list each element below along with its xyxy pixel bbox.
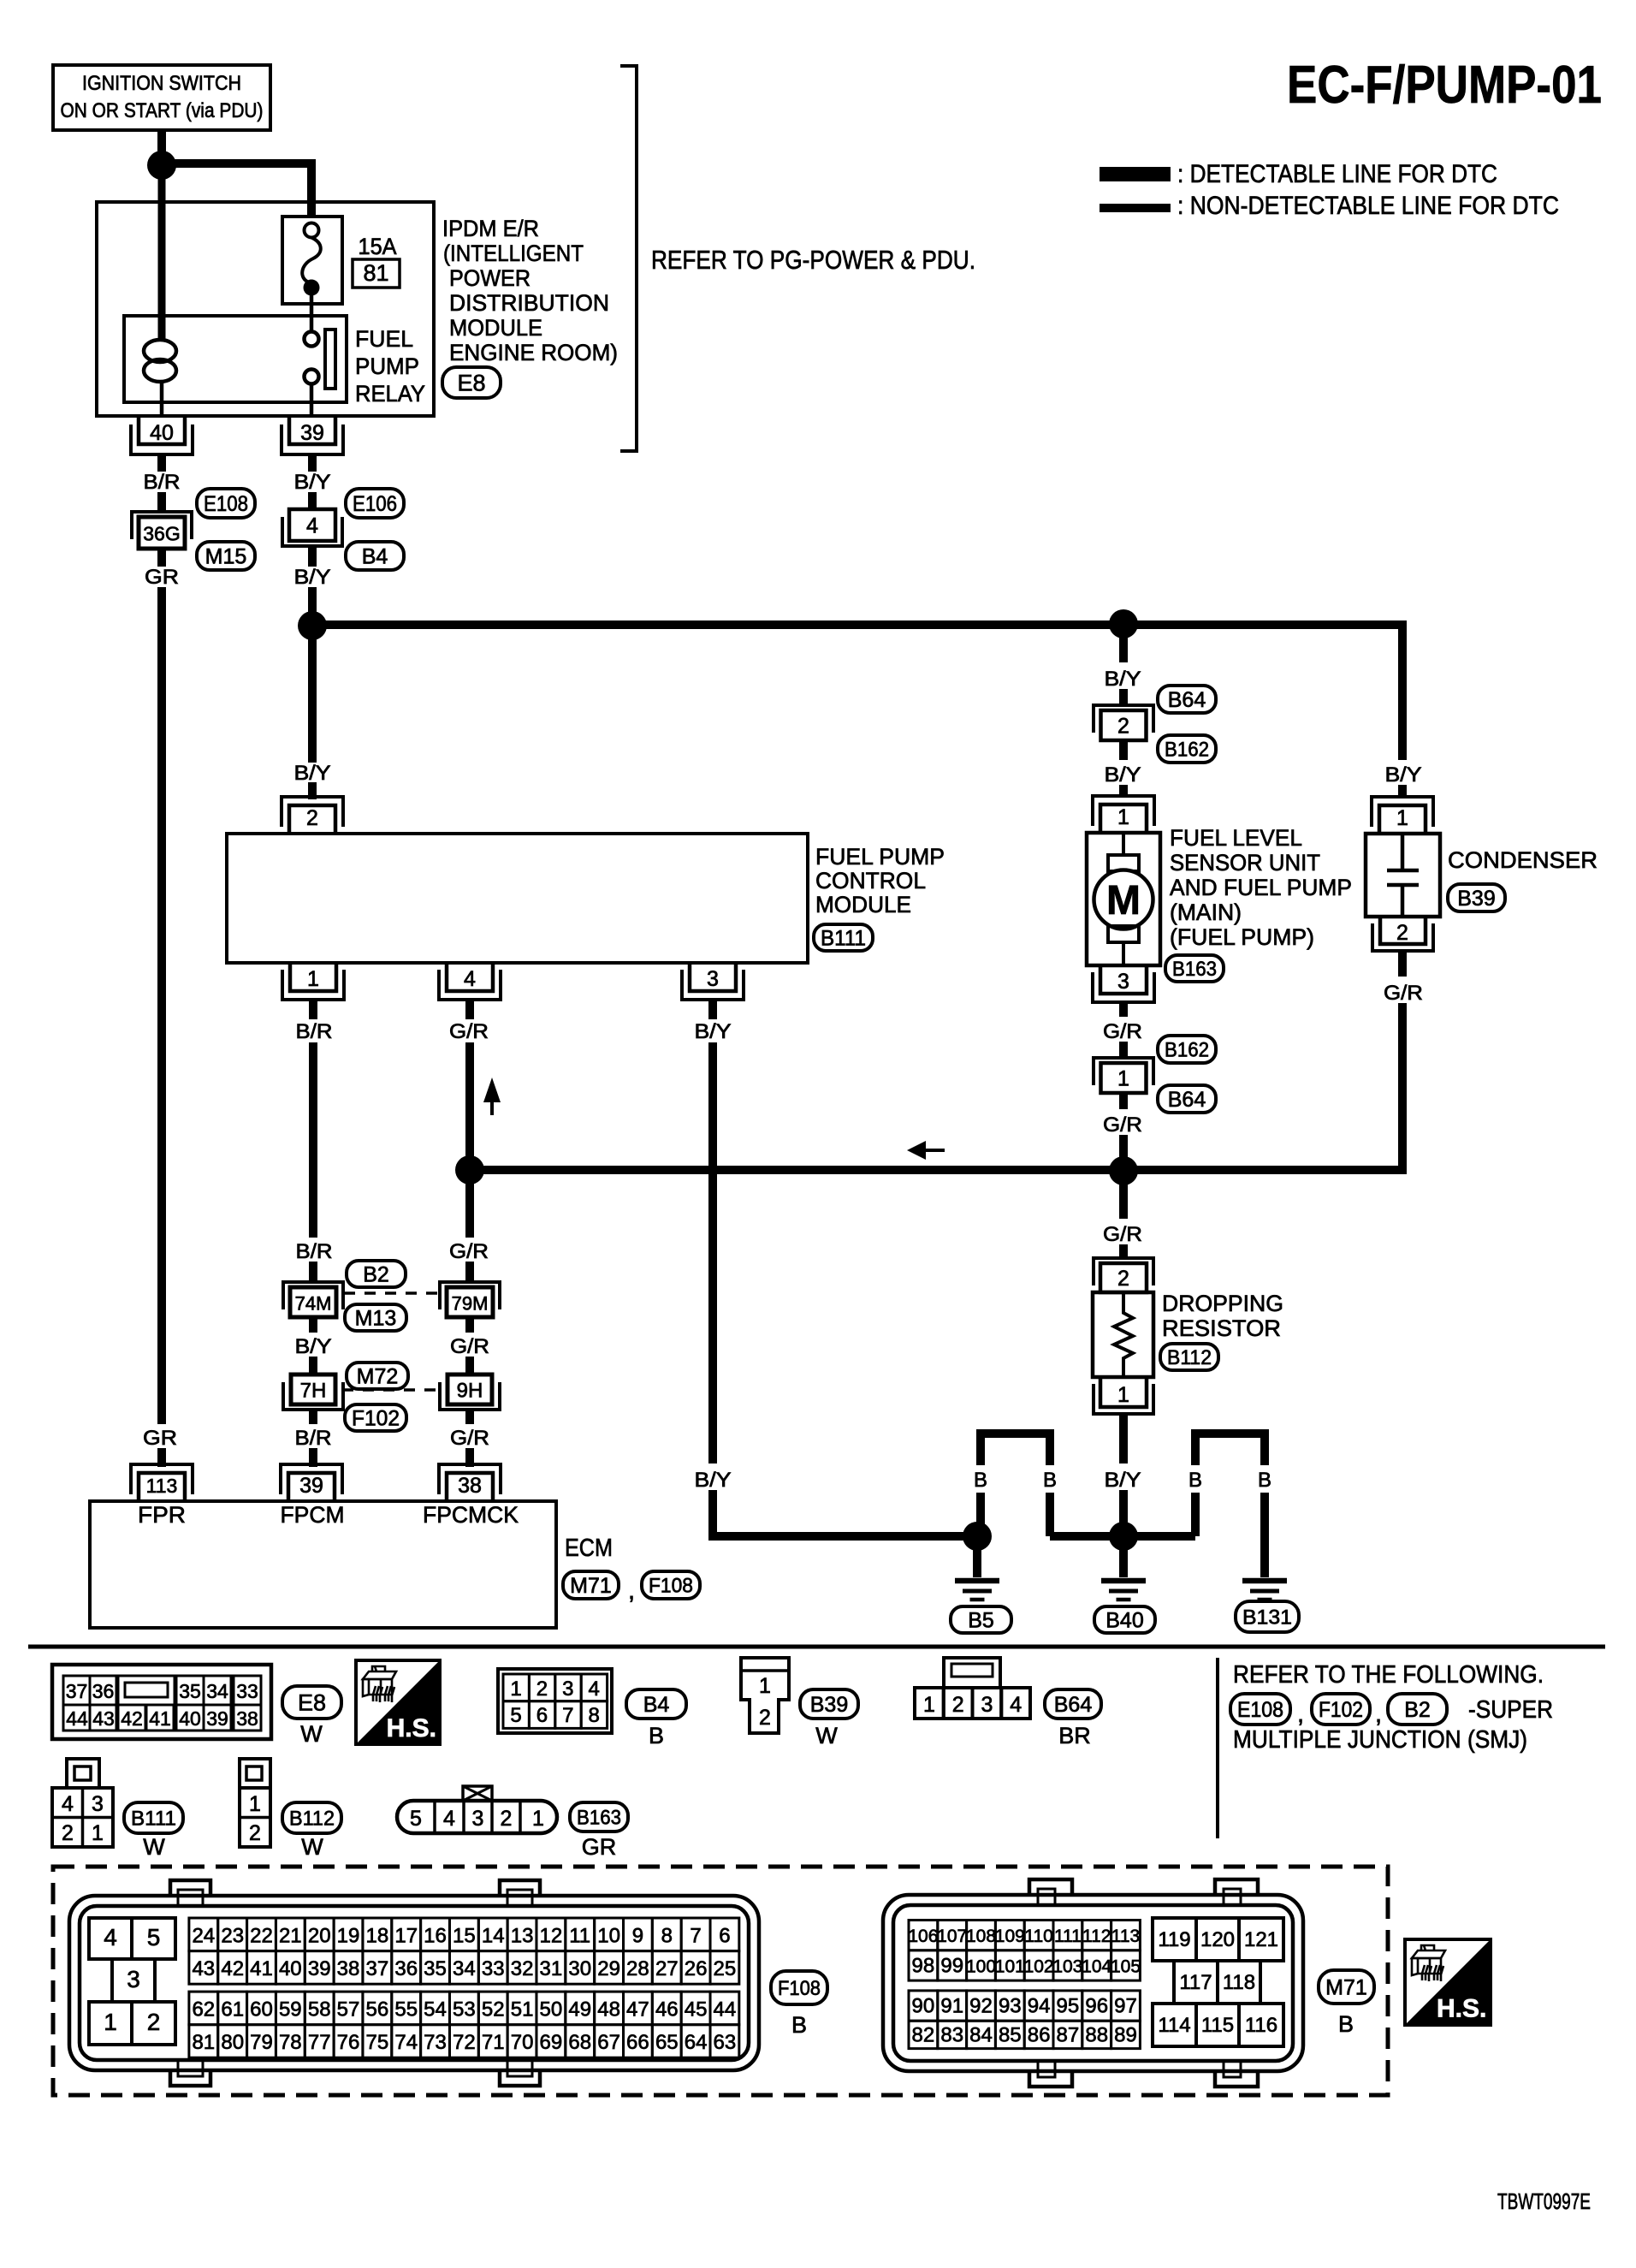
- svg-text:103: 103: [1052, 1956, 1082, 1976]
- svg-text:M: M: [1106, 878, 1141, 923]
- dashed enclosure: [53, 1867, 1388, 2095]
- svg-text:ENGINE ROOM): ENGINE ROOM): [449, 340, 618, 365]
- wire below FPCM pin 4: [465, 1000, 474, 1019]
- svg-text:31: 31: [540, 1957, 563, 1980]
- fuel pump pin 3: [1093, 965, 1154, 1002]
- svg-text:117: 117: [1179, 1971, 1212, 1994]
- svg-text:111: 111: [1054, 1927, 1082, 1946]
- connector ref E108 oval: [197, 489, 255, 518]
- svg-text:113: 113: [146, 1475, 178, 1497]
- wire junction down to relay coil: [158, 178, 166, 341]
- fuse 15A symbol: [302, 223, 321, 296]
- svg-text:14: 14: [482, 1924, 505, 1947]
- svg-text:52: 52: [482, 1998, 505, 2021]
- svg-text:DROPPING: DROPPING: [1162, 1291, 1283, 1316]
- fuel pump motor M: [1094, 834, 1153, 965]
- connector face B163: [397, 1786, 557, 1833]
- wire below 7H: [309, 1411, 317, 1424]
- svg-text:1: 1: [307, 967, 319, 991]
- wire below G/R bus junction: [1119, 1184, 1128, 1219]
- svg-text:35: 35: [179, 1680, 201, 1702]
- svg-text:65: 65: [655, 2031, 679, 2054]
- connector ref E8 oval 2: [282, 1686, 341, 1719]
- svg-text:G/R: G/R: [1103, 1223, 1142, 1246]
- wire GR into ECM: [157, 1448, 166, 1467]
- svg-text:M13: M13: [355, 1307, 397, 1331]
- svg-text:67: 67: [597, 2031, 620, 2054]
- junction node ground B5: [963, 1522, 992, 1551]
- wire into ground junction B40: [1119, 1490, 1128, 1523]
- connector ref B131 oval: [1236, 1601, 1299, 1632]
- svg-text:81: 81: [363, 260, 388, 286]
- svg-text:84: 84: [969, 2023, 993, 2046]
- svg-text:MULTIPLE JUNCTION (SMJ): MULTIPLE JUNCTION (SMJ): [1233, 1726, 1527, 1754]
- svg-text:105: 105: [1111, 1956, 1141, 1976]
- svg-text:2: 2: [952, 1693, 964, 1717]
- svg-text:M15: M15: [205, 545, 247, 569]
- svg-text:38: 38: [236, 1707, 258, 1730]
- svg-text:(INTELLIGENT: (INTELLIGENT: [443, 240, 584, 266]
- svg-text:36G: 36G: [143, 523, 180, 545]
- svg-text:98: 98: [912, 1954, 935, 1977]
- svg-text:(FUEL PUMP): (FUEL PUMP): [1170, 924, 1314, 950]
- wire B/Y down to FPCM: [308, 638, 317, 763]
- svg-text:11: 11: [569, 1924, 590, 1947]
- svg-text:6: 6: [536, 1704, 548, 1727]
- svg-text:B/Y: B/Y: [1385, 763, 1422, 787]
- wire B/Y horizontal bus: [321, 620, 1402, 629]
- wire fuse to relay contact: [310, 295, 314, 333]
- svg-text:56: 56: [366, 1998, 389, 2021]
- legend label detectable: [1177, 160, 1497, 188]
- label B/Y 4: [695, 1020, 732, 1043]
- svg-text:W: W: [815, 1723, 838, 1748]
- label G/R condenser: [1384, 982, 1423, 1005]
- connector 79M: [440, 1282, 500, 1317]
- connector ref B111 oval 2: [124, 1802, 183, 1833]
- capacitor symbol: [1387, 835, 1419, 917]
- junction node ground B40: [1109, 1522, 1138, 1551]
- connector ref B2 oval 2: [1388, 1694, 1447, 1725]
- wire below connector 2: [1119, 740, 1128, 760]
- harness side emblem H.S. 2: [1405, 1939, 1491, 2025]
- svg-text:5: 5: [410, 1807, 422, 1831]
- svg-text:2: 2: [759, 1706, 771, 1730]
- connector ref M72 oval: [347, 1363, 408, 1389]
- svg-text:H.S.: H.S.: [387, 1714, 436, 1743]
- svg-text:114: 114: [1158, 2014, 1190, 2037]
- svg-text:B40: B40: [1105, 1609, 1143, 1633]
- connector 36G: [132, 512, 192, 549]
- svg-text:B: B: [1043, 1469, 1057, 1492]
- harness side emblem H.S. 1: [356, 1660, 440, 1744]
- label IPDM E/R description: [442, 216, 618, 365]
- svg-text:CONTROL: CONTROL: [815, 868, 926, 894]
- svg-text:B2: B2: [1404, 1698, 1431, 1722]
- label FPR: [138, 1502, 186, 1528]
- comma 1: [1297, 1701, 1304, 1728]
- svg-text:FUEL PUMP: FUEL PUMP: [815, 844, 945, 870]
- svg-text:68: 68: [568, 2031, 591, 2054]
- ground bridge 1: [976, 1434, 1054, 1536]
- svg-text:34: 34: [206, 1680, 228, 1702]
- svg-text:B/Y: B/Y: [1105, 763, 1141, 787]
- junction node G/R: [455, 1155, 484, 1184]
- svg-text:GR: GR: [143, 1427, 177, 1450]
- label GR: [145, 566, 179, 589]
- svg-text:71: 71: [482, 2031, 505, 2054]
- svg-text:89: 89: [1114, 2023, 1137, 2046]
- svg-text:F108: F108: [649, 1575, 693, 1598]
- svg-text:1: 1: [1396, 806, 1408, 830]
- svg-text:AND FUEL PUMP: AND FUEL PUMP: [1170, 875, 1352, 900]
- svg-text:79M: 79M: [452, 1293, 489, 1315]
- relay contact: [305, 330, 336, 389]
- junction node pump supply: [1109, 609, 1138, 638]
- svg-text:MODULE: MODULE: [815, 892, 911, 917]
- connector ref B4 oval 2: [626, 1689, 686, 1719]
- label B F108: [791, 2012, 807, 2038]
- svg-text:4: 4: [443, 1807, 455, 1831]
- svg-text:8: 8: [589, 1704, 600, 1727]
- wire below condenser: [1398, 951, 1407, 977]
- wire condenser drop: [1398, 620, 1407, 760]
- arrow up signal direction: [483, 1078, 501, 1115]
- svg-text:-SUPER: -SUPER: [1468, 1696, 1553, 1724]
- svg-text:93: 93: [999, 1995, 1022, 2018]
- svg-text:108: 108: [966, 1927, 996, 1946]
- fuel level sensor unit and fuel pump box: [1087, 833, 1160, 965]
- svg-text:45: 45: [685, 1998, 708, 2021]
- fuel pump pin 1: [1093, 796, 1154, 833]
- svg-text:40: 40: [150, 421, 174, 445]
- svg-text:39: 39: [206, 1707, 228, 1730]
- connector ref F108 oval 3: [771, 1971, 827, 2004]
- svg-text:12: 12: [540, 1924, 563, 1947]
- label B B4: [649, 1723, 664, 1748]
- wire relay contact to pin 39: [310, 383, 314, 418]
- connector ref B162 oval 2: [1158, 1036, 1216, 1063]
- label FPCM: [281, 1502, 345, 1528]
- svg-text:26: 26: [685, 1957, 708, 1980]
- label W B112: [301, 1834, 323, 1860]
- svg-text:3: 3: [1117, 970, 1129, 994]
- connector ref F102 oval 2: [1312, 1694, 1370, 1725]
- svg-text:W: W: [301, 1834, 323, 1860]
- svg-text:E108: E108: [1237, 1698, 1283, 1722]
- label B/R 2: [296, 1020, 333, 1043]
- svg-text:IGNITION SWITCH: IGNITION SWITCH: [82, 72, 241, 95]
- legend label non-detectable: [1177, 192, 1559, 220]
- svg-text:E8: E8: [298, 1690, 326, 1716]
- separator line: [28, 1645, 1605, 1649]
- svg-text:4: 4: [464, 967, 476, 991]
- connector face B64: [915, 1658, 1030, 1719]
- label B/Y 2: [294, 566, 331, 589]
- svg-text:M71: M71: [570, 1574, 612, 1598]
- connector ref B112 oval 2: [282, 1802, 341, 1833]
- svg-text:85: 85: [999, 2023, 1022, 2046]
- svg-text:2: 2: [249, 1821, 261, 1845]
- dropping resistor pin 2: [1094, 1258, 1153, 1292]
- wire B/Y below terminal 39: [308, 454, 317, 472]
- svg-text:37: 37: [66, 1680, 88, 1702]
- svg-text:41: 41: [149, 1707, 171, 1730]
- svg-text:53: 53: [453, 1998, 476, 2021]
- svg-text:6: 6: [719, 1924, 730, 1947]
- wire B/R below terminal 40: [157, 454, 166, 472]
- svg-text:B: B: [1338, 2011, 1354, 2037]
- svg-text:,: ,: [628, 1577, 635, 1605]
- svg-text:2: 2: [1117, 1267, 1129, 1291]
- svg-text:B: B: [974, 1469, 987, 1492]
- svg-text:113: 113: [1111, 1927, 1140, 1946]
- dashed link 74M to 79M: [344, 1291, 440, 1295]
- svg-text:(MAIN): (MAIN): [1170, 899, 1242, 925]
- svg-text:F108: F108: [778, 1977, 821, 2000]
- label B/Y pump 2: [1105, 763, 1141, 787]
- connector 9H: [440, 1374, 500, 1410]
- arrow left signal direction: [907, 1141, 945, 1160]
- svg-text:112: 112: [1082, 1927, 1111, 1946]
- svg-text:18: 18: [366, 1924, 389, 1947]
- svg-text:B: B: [791, 2012, 807, 2038]
- label G/R resistor: [1103, 1223, 1142, 1246]
- junction node B/Y: [298, 611, 327, 640]
- svg-text:B163: B163: [577, 1807, 621, 1830]
- wire below connector 1: [1119, 1093, 1128, 1109]
- svg-text:121: 121: [1244, 1928, 1278, 1951]
- svg-text:GR: GR: [582, 1834, 617, 1860]
- dropping resistor pin 1: [1094, 1377, 1153, 1414]
- svg-text:G/R: G/R: [449, 1240, 489, 1263]
- svg-text:3: 3: [707, 967, 719, 991]
- relay coil: [144, 340, 176, 416]
- svg-text:BR: BR: [1058, 1723, 1091, 1748]
- svg-text:G/R: G/R: [1103, 1020, 1142, 1043]
- connector face B4 grid: [498, 1669, 612, 1733]
- junction node G/R bus: [1109, 1156, 1138, 1185]
- svg-text:15: 15: [453, 1924, 476, 1947]
- legend thin non-detectable line sample: [1100, 204, 1171, 212]
- svg-text:FPCM: FPCM: [281, 1502, 345, 1528]
- svg-text:E108: E108: [204, 492, 248, 516]
- label G/R pump: [1103, 1020, 1142, 1043]
- svg-text:39: 39: [308, 1957, 331, 1980]
- svg-text:9H: 9H: [457, 1380, 483, 1403]
- label FPCMCK: [423, 1502, 519, 1528]
- wire into ECM pin 39: [309, 1448, 317, 1467]
- wire into connector 2: [1119, 689, 1128, 705]
- FPCM pin 3: [682, 963, 744, 1000]
- svg-text:4: 4: [104, 1924, 117, 1950]
- svg-text:58: 58: [308, 1998, 331, 2021]
- svg-text:4: 4: [62, 1792, 74, 1816]
- svg-text:33: 33: [236, 1680, 258, 1702]
- wire below pump junction: [1119, 637, 1128, 662]
- svg-text:55: 55: [394, 1998, 418, 2021]
- wire below 74M: [309, 1317, 317, 1333]
- svg-text:95: 95: [1057, 1995, 1080, 2018]
- svg-text:36: 36: [394, 1957, 418, 1980]
- svg-text:70: 70: [511, 2031, 534, 2054]
- svg-text:4: 4: [306, 514, 318, 538]
- svg-text:96: 96: [1085, 1995, 1108, 2018]
- dashed link 7H to 9H: [342, 1388, 440, 1392]
- svg-text:B4: B4: [362, 545, 388, 569]
- svg-text:3: 3: [92, 1792, 104, 1816]
- fuse number 81 box: [353, 259, 400, 288]
- svg-text:118: 118: [1223, 1971, 1255, 1994]
- note REFER TO THE FOLLOWING.: [1233, 1661, 1544, 1689]
- svg-text:102: 102: [1024, 1956, 1054, 1976]
- svg-text:B64: B64: [1054, 1693, 1093, 1717]
- connector ref B40 oval: [1094, 1606, 1155, 1633]
- wire B/Y long down: [708, 1042, 717, 1464]
- svg-text:75: 75: [366, 2031, 389, 2054]
- svg-text:B64: B64: [1168, 688, 1206, 712]
- svg-text:2: 2: [147, 2009, 161, 2035]
- svg-text:B/Y: B/Y: [695, 1020, 732, 1043]
- svg-text:3: 3: [981, 1693, 993, 1717]
- label FUEL LEVEL SENSOR UNIT: [1170, 825, 1352, 950]
- svg-text:1: 1: [249, 1792, 261, 1816]
- wire into 79M: [465, 1262, 474, 1282]
- svg-text:36: 36: [92, 1680, 115, 1702]
- label B/R 3: [296, 1240, 333, 1263]
- connector M71 pin grid: [908, 1921, 1141, 2049]
- wire GR long run to ECM: [157, 587, 166, 1424]
- svg-text:90: 90: [912, 1995, 935, 2018]
- svg-text:13: 13: [511, 1924, 534, 1947]
- ignition switch box: [53, 65, 270, 130]
- svg-text:106: 106: [908, 1927, 938, 1946]
- svg-text:DISTRIBUTION: DISTRIBUTION: [449, 290, 609, 316]
- wire below FPCM pin 3: [708, 1000, 717, 1019]
- IPDM E/R module box: [97, 202, 434, 416]
- svg-text:B131: B131: [1242, 1606, 1292, 1630]
- svg-text:W: W: [300, 1721, 323, 1747]
- svg-text:74: 74: [394, 2031, 418, 2054]
- svg-text:15A: 15A: [359, 234, 397, 259]
- svg-text:B: B: [649, 1723, 664, 1748]
- connector face B111: [52, 1759, 113, 1847]
- connector ref B64 oval 3: [1045, 1689, 1101, 1719]
- label W E8: [300, 1721, 323, 1747]
- svg-text:B162: B162: [1165, 1039, 1209, 1062]
- svg-text:88: 88: [1085, 2023, 1108, 2046]
- svg-text:46: 46: [655, 1998, 679, 2021]
- svg-text:FPCMCK: FPCMCK: [423, 1502, 519, 1528]
- svg-text:H.S.: H.S.: [1437, 1995, 1486, 2023]
- svg-text:REFER TO PG-POWER & PDU.: REFER TO PG-POWER & PDU.: [651, 245, 975, 275]
- svg-text:91: 91: [940, 1995, 963, 2018]
- label B/Y pump: [1105, 668, 1141, 691]
- label W B111: [143, 1834, 165, 1860]
- connector ref B163 oval: [1165, 955, 1224, 982]
- svg-text:2: 2: [306, 806, 318, 830]
- svg-text:1: 1: [532, 1807, 544, 1831]
- comma separator: [628, 1577, 635, 1605]
- label B 4: [1258, 1469, 1271, 1492]
- wire into pump pin 1: [1119, 785, 1128, 798]
- svg-text:2: 2: [1117, 715, 1129, 739]
- wire into dropping resistor pin 2: [1119, 1244, 1128, 1258]
- svg-text:: NON-DETECTABLE LINE FOR DTC: : NON-DETECTABLE LINE FOR DTC: [1177, 192, 1559, 220]
- svg-text:20: 20: [308, 1924, 331, 1947]
- svg-text:86: 86: [1028, 2023, 1051, 2046]
- svg-text:B112: B112: [1167, 1346, 1212, 1369]
- svg-text:G/R: G/R: [450, 1335, 489, 1358]
- label FUEL PUMP RELAY: [355, 326, 425, 407]
- wire junction branch to fuse: [167, 159, 311, 217]
- wire into condenser pin 1: [1398, 785, 1407, 798]
- FPCM pin 4: [439, 963, 501, 1000]
- svg-text:RELAY: RELAY: [355, 381, 425, 407]
- svg-text:24: 24: [192, 1924, 215, 1947]
- connector 2 pump: [1094, 705, 1153, 740]
- FPCM pin 1: [282, 963, 344, 1000]
- svg-text:10: 10: [597, 1924, 620, 1947]
- svg-text:104: 104: [1082, 1956, 1111, 1976]
- label B/R: [144, 471, 181, 494]
- svg-text:62: 62: [192, 1998, 215, 2021]
- label B/Y condenser: [1385, 763, 1422, 787]
- svg-text:4: 4: [589, 1677, 600, 1701]
- label B/R 4: [295, 1427, 332, 1450]
- label FUEL PUMP CONTROL MODULE: [815, 844, 945, 917]
- connector ref B2 oval: [347, 1261, 406, 1287]
- svg-text:17: 17: [394, 1924, 418, 1947]
- svg-text:B/Y: B/Y: [295, 1335, 332, 1358]
- svg-text:9: 9: [632, 1924, 643, 1947]
- svg-text:5: 5: [510, 1704, 521, 1727]
- svg-text:107: 107: [937, 1927, 967, 1946]
- wire into 9H: [465, 1357, 474, 1374]
- svg-text:M71: M71: [1325, 1976, 1367, 2000]
- wire B/R down: [309, 1042, 317, 1238]
- svg-text:,: ,: [1297, 1701, 1304, 1728]
- svg-text:41: 41: [250, 1957, 273, 1980]
- svg-text:1: 1: [1117, 805, 1129, 829]
- svg-text:7: 7: [562, 1704, 573, 1727]
- svg-text:1: 1: [92, 1821, 104, 1845]
- diagram title EC-F/PUMP-01: [1287, 56, 1602, 115]
- svg-text:ECM: ECM: [565, 1535, 613, 1562]
- svg-text:66: 66: [626, 2031, 649, 2054]
- svg-text:SENSOR UNIT: SENSOR UNIT: [1170, 850, 1320, 876]
- svg-text:B64: B64: [1168, 1088, 1206, 1112]
- svg-text:FUEL: FUEL: [355, 326, 413, 352]
- svg-text:1: 1: [923, 1693, 935, 1717]
- label G/R 4: [450, 1427, 489, 1450]
- svg-text:M72: M72: [357, 1365, 399, 1389]
- svg-text:101: 101: [995, 1956, 1025, 1976]
- wire below connector 4: [308, 548, 317, 567]
- condenser pin 1: [1372, 797, 1433, 834]
- connector ref E108 oval 2: [1230, 1694, 1290, 1725]
- wire into FPCM pin 2: [308, 782, 317, 799]
- svg-text:97: 97: [1114, 1995, 1137, 2018]
- svg-text:RESISTOR: RESISTOR: [1162, 1315, 1281, 1341]
- fuel pump control module box: [227, 834, 808, 963]
- connector ref B111 oval: [814, 924, 873, 951]
- wire below G/R junction: [465, 1183, 474, 1238]
- wire into 7H: [309, 1357, 317, 1374]
- svg-text:B/R: B/R: [296, 1020, 333, 1043]
- svg-text:87: 87: [1057, 2023, 1080, 2046]
- wire below 36G: [157, 549, 166, 567]
